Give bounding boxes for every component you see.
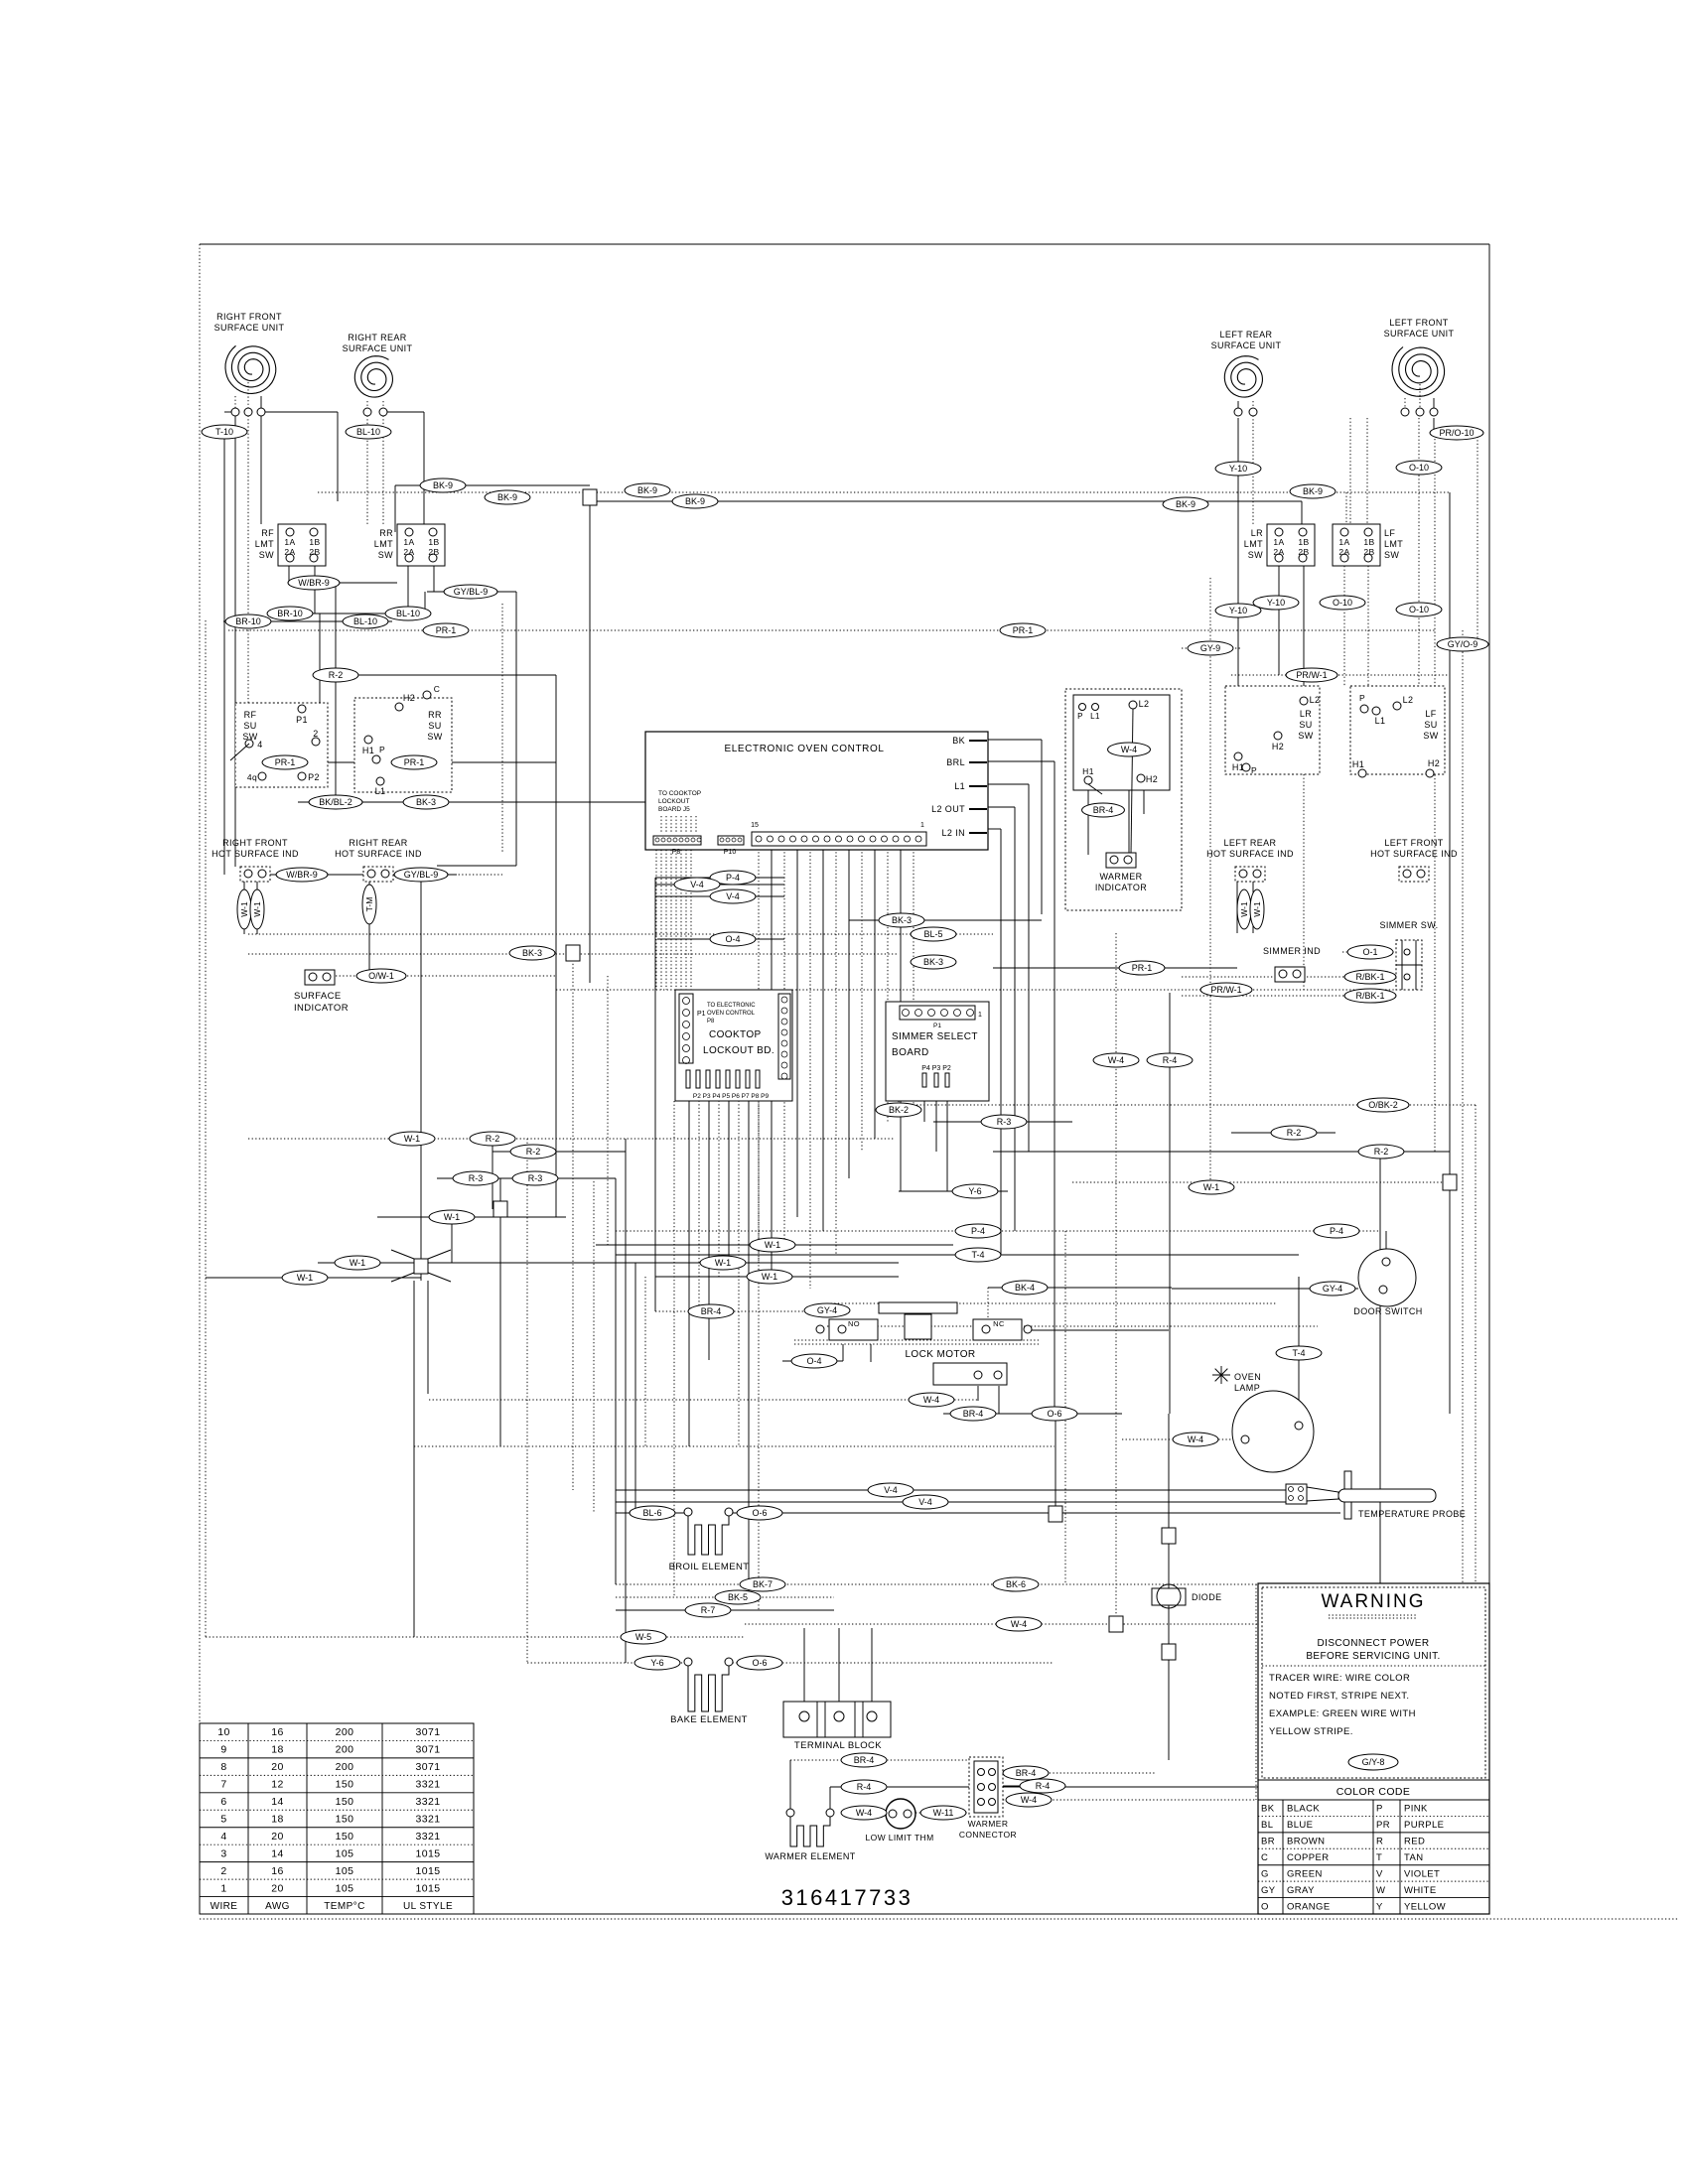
svg-text:W-4: W-4 bbox=[923, 1395, 939, 1405]
svg-text:18: 18 bbox=[271, 1744, 283, 1756]
svg-text:2A: 2A bbox=[1338, 547, 1349, 557]
svg-text:SW: SW bbox=[1248, 550, 1263, 560]
svg-text:Y-10: Y-10 bbox=[1229, 464, 1247, 474]
svg-text:18: 18 bbox=[271, 1814, 283, 1826]
svg-text:H2: H2 bbox=[1428, 758, 1440, 768]
svg-text:WIRE: WIRE bbox=[211, 1901, 238, 1912]
svg-text:BK/BL-2: BK/BL-2 bbox=[319, 797, 352, 807]
svg-text:R-7: R-7 bbox=[701, 1605, 716, 1615]
svg-text:WARMER: WARMER bbox=[968, 1819, 1009, 1829]
svg-text:8: 8 bbox=[220, 1761, 226, 1773]
svg-text:R-4: R-4 bbox=[1036, 1781, 1051, 1791]
svg-text:TO COOKTOP: TO COOKTOP bbox=[658, 790, 701, 797]
svg-text:BL-5: BL-5 bbox=[923, 929, 942, 939]
svg-text:BK-3: BK-3 bbox=[892, 915, 912, 925]
svg-text:ORANGE: ORANGE bbox=[1287, 1901, 1331, 1912]
svg-text:TO ELECTRONIC: TO ELECTRONIC bbox=[707, 1003, 756, 1009]
svg-text:BR-4: BR-4 bbox=[701, 1306, 722, 1316]
svg-text:COLOR CODE: COLOR CODE bbox=[1336, 1786, 1411, 1798]
svg-text:COOKTOP: COOKTOP bbox=[709, 1029, 762, 1040]
svg-text:BK-4: BK-4 bbox=[1015, 1283, 1035, 1293]
svg-text:PR-1: PR-1 bbox=[436, 625, 457, 635]
svg-text:9: 9 bbox=[220, 1744, 226, 1756]
svg-text:RIGHT FRONT: RIGHT FRONT bbox=[222, 838, 288, 848]
svg-text:V-4: V-4 bbox=[918, 1497, 932, 1507]
svg-text:2B: 2B bbox=[1363, 547, 1374, 557]
svg-text:LEFT FRONT: LEFT FRONT bbox=[1384, 838, 1443, 848]
svg-text:R-2: R-2 bbox=[1374, 1147, 1389, 1157]
svg-text:1: 1 bbox=[978, 1012, 982, 1019]
svg-text:L2 IN: L2 IN bbox=[941, 828, 965, 838]
svg-text:P: P bbox=[379, 745, 385, 754]
svg-text:200: 200 bbox=[336, 1726, 354, 1738]
svg-text:L1: L1 bbox=[954, 781, 965, 791]
svg-text:HOT SURFACE IND: HOT SURFACE IND bbox=[1370, 849, 1458, 859]
svg-text:P-4: P-4 bbox=[1330, 1226, 1343, 1236]
svg-text:H2: H2 bbox=[1272, 742, 1284, 751]
svg-text:GY/BL-9: GY/BL-9 bbox=[404, 870, 439, 880]
svg-text:2A: 2A bbox=[1273, 547, 1284, 557]
svg-text:SIMMER SW.: SIMMER SW. bbox=[1379, 920, 1438, 930]
svg-text:O-10: O-10 bbox=[1409, 605, 1429, 614]
svg-text:H2: H2 bbox=[403, 693, 415, 703]
svg-text:1B: 1B bbox=[428, 537, 439, 547]
svg-text:GREEN: GREEN bbox=[1287, 1868, 1323, 1879]
svg-text:L2: L2 bbox=[1403, 695, 1414, 705]
svg-text:10: 10 bbox=[217, 1726, 229, 1738]
svg-text:7: 7 bbox=[220, 1779, 226, 1791]
svg-text:BK-7: BK-7 bbox=[753, 1579, 773, 1589]
svg-text:H1: H1 bbox=[1082, 766, 1094, 776]
svg-text:DIODE: DIODE bbox=[1192, 1592, 1222, 1602]
svg-text:105: 105 bbox=[336, 1865, 354, 1877]
svg-text:BRL: BRL bbox=[946, 757, 965, 767]
svg-text:LMT: LMT bbox=[1244, 539, 1263, 549]
svg-text:GY-4: GY-4 bbox=[1323, 1284, 1342, 1294]
svg-text:TRACER WIRE: WIRE COLOR: TRACER WIRE: WIRE COLOR bbox=[1269, 1673, 1410, 1684]
svg-text:RR: RR bbox=[428, 710, 442, 720]
svg-text:BR: BR bbox=[1261, 1837, 1275, 1847]
svg-text:20: 20 bbox=[271, 1761, 283, 1773]
svg-text:1: 1 bbox=[920, 822, 924, 829]
svg-text:3321: 3321 bbox=[416, 1779, 441, 1791]
svg-text:200: 200 bbox=[336, 1761, 354, 1773]
svg-text:R/BK-1: R/BK-1 bbox=[1355, 991, 1384, 1001]
svg-text:PINK: PINK bbox=[1404, 1804, 1428, 1815]
svg-text:BK-6: BK-6 bbox=[1006, 1579, 1026, 1589]
svg-text:W: W bbox=[1376, 1885, 1385, 1896]
svg-text:Y-6: Y-6 bbox=[968, 1186, 981, 1196]
svg-text:L2: L2 bbox=[1310, 695, 1321, 705]
svg-text:BR-4: BR-4 bbox=[963, 1409, 984, 1419]
svg-text:O-4: O-4 bbox=[725, 934, 740, 944]
svg-text:C: C bbox=[1261, 1852, 1268, 1863]
svg-text:WARMER: WARMER bbox=[1099, 872, 1142, 882]
svg-text:P-4: P-4 bbox=[726, 873, 740, 883]
svg-text:BK-9: BK-9 bbox=[1176, 499, 1196, 509]
svg-text:W-1: W-1 bbox=[444, 1212, 460, 1222]
svg-text:HOT SURFACE IND: HOT SURFACE IND bbox=[1206, 849, 1294, 859]
svg-text:O: O bbox=[1261, 1901, 1269, 1912]
svg-text:LEFT FRONT: LEFT FRONT bbox=[1389, 318, 1448, 328]
svg-text:H1: H1 bbox=[362, 746, 374, 755]
svg-text:PR-1: PR-1 bbox=[275, 757, 296, 767]
svg-text:PR: PR bbox=[1376, 1820, 1390, 1831]
svg-text:4: 4 bbox=[220, 1831, 226, 1843]
svg-text:BK: BK bbox=[952, 736, 965, 746]
svg-text:T: T bbox=[1376, 1852, 1382, 1863]
svg-text:2: 2 bbox=[313, 729, 318, 739]
svg-text:200: 200 bbox=[336, 1744, 354, 1756]
svg-text:BOARD: BOARD bbox=[892, 1047, 929, 1058]
svg-text:2B: 2B bbox=[309, 547, 320, 557]
svg-text:T-M: T-M bbox=[364, 897, 374, 912]
svg-text:SURFACE UNIT: SURFACE UNIT bbox=[1384, 329, 1455, 339]
svg-text:TAN: TAN bbox=[1404, 1852, 1424, 1863]
svg-text:W-4: W-4 bbox=[1108, 1055, 1124, 1065]
svg-text:RIGHT FRONT: RIGHT FRONT bbox=[216, 312, 282, 322]
svg-text:BK-9: BK-9 bbox=[433, 480, 453, 490]
svg-text:BL-10: BL-10 bbox=[356, 427, 380, 437]
svg-text:3071: 3071 bbox=[416, 1744, 441, 1756]
svg-text:BR-10: BR-10 bbox=[235, 616, 261, 626]
svg-text:L1: L1 bbox=[1090, 712, 1100, 721]
svg-text:GY/O-9: GY/O-9 bbox=[1448, 639, 1478, 649]
svg-text:BK-9: BK-9 bbox=[685, 496, 705, 506]
svg-text:PURPLE: PURPLE bbox=[1404, 1820, 1444, 1831]
svg-text:O-6: O-6 bbox=[752, 1658, 767, 1668]
svg-text:O-10: O-10 bbox=[1333, 598, 1352, 608]
svg-text:RR: RR bbox=[379, 528, 393, 538]
svg-text:W/BR-9: W/BR-9 bbox=[286, 870, 318, 880]
svg-text:1B: 1B bbox=[1363, 537, 1374, 547]
svg-text:LMT: LMT bbox=[1384, 539, 1403, 549]
svg-text:L2 OUT: L2 OUT bbox=[931, 804, 965, 814]
svg-text:SURFACE UNIT: SURFACE UNIT bbox=[214, 323, 285, 333]
svg-text:W-1: W-1 bbox=[350, 1258, 365, 1268]
svg-text:LEFT REAR: LEFT REAR bbox=[1220, 330, 1273, 340]
svg-text:RF: RF bbox=[244, 710, 257, 720]
svg-text:BL-10: BL-10 bbox=[396, 609, 420, 618]
svg-text:V-4: V-4 bbox=[690, 880, 704, 889]
svg-text:R: R bbox=[1376, 1837, 1383, 1847]
svg-text:PR/O-10: PR/O-10 bbox=[1439, 428, 1474, 438]
svg-text:BEFORE SERVICING UNIT.: BEFORE SERVICING UNIT. bbox=[1306, 1651, 1440, 1662]
svg-text:12: 12 bbox=[271, 1779, 283, 1791]
svg-text:C: C bbox=[434, 684, 441, 694]
svg-text:Y: Y bbox=[1376, 1901, 1383, 1912]
svg-text:YELLOW STRIPE.: YELLOW STRIPE. bbox=[1269, 1726, 1353, 1737]
svg-text:OVEN: OVEN bbox=[1234, 1372, 1261, 1382]
svg-text:DISCONNECT POWER: DISCONNECT POWER bbox=[1318, 1638, 1430, 1649]
svg-text:PR-1: PR-1 bbox=[1132, 963, 1153, 973]
svg-text:LMT: LMT bbox=[374, 539, 393, 549]
svg-text:RED: RED bbox=[1404, 1837, 1425, 1847]
svg-text:1015: 1015 bbox=[416, 1847, 441, 1859]
svg-text:T-10: T-10 bbox=[215, 427, 233, 437]
svg-text:3: 3 bbox=[220, 1847, 226, 1859]
svg-text:GY-4: GY-4 bbox=[817, 1305, 837, 1315]
svg-text:BK-3: BK-3 bbox=[416, 797, 436, 807]
svg-text:PR-1: PR-1 bbox=[404, 757, 425, 767]
svg-text:LEFT REAR: LEFT REAR bbox=[1224, 838, 1277, 848]
svg-text:150: 150 bbox=[336, 1814, 354, 1826]
svg-text:DOOR SWITCH: DOOR SWITCH bbox=[1353, 1306, 1422, 1316]
svg-text:W/BR-9: W/BR-9 bbox=[298, 578, 330, 588]
svg-text:W-4: W-4 bbox=[1011, 1619, 1027, 1629]
svg-text:1A: 1A bbox=[284, 537, 295, 547]
svg-text:P: P bbox=[1376, 1804, 1383, 1815]
svg-text:H1: H1 bbox=[1352, 759, 1364, 769]
svg-text:SU: SU bbox=[1424, 720, 1437, 730]
svg-text:150: 150 bbox=[336, 1779, 354, 1791]
svg-text:LOCKOUT BD.: LOCKOUT BD. bbox=[703, 1045, 774, 1056]
svg-text:L2: L2 bbox=[1139, 699, 1150, 709]
svg-text:V-4: V-4 bbox=[884, 1485, 898, 1495]
svg-text:R-2: R-2 bbox=[329, 670, 344, 680]
svg-text:O-10: O-10 bbox=[1409, 463, 1429, 473]
svg-text:G: G bbox=[1261, 1868, 1269, 1879]
svg-text:INDICATOR: INDICATOR bbox=[294, 1003, 349, 1014]
svg-text:2A: 2A bbox=[284, 547, 295, 557]
svg-text:5: 5 bbox=[220, 1814, 226, 1826]
svg-text:SW: SW bbox=[1423, 731, 1438, 741]
svg-text:3071: 3071 bbox=[416, 1761, 441, 1773]
svg-text:R/BK-1: R/BK-1 bbox=[1355, 972, 1384, 982]
svg-text:SW: SW bbox=[378, 550, 393, 560]
svg-text:WARMER ELEMENT: WARMER ELEMENT bbox=[765, 1851, 855, 1861]
svg-text:20: 20 bbox=[271, 1882, 283, 1894]
svg-text:14: 14 bbox=[271, 1847, 283, 1859]
svg-text:SURFACE UNIT: SURFACE UNIT bbox=[343, 343, 413, 353]
svg-text:LOCKOUT: LOCKOUT bbox=[658, 798, 689, 805]
svg-text:4q: 4q bbox=[247, 772, 257, 782]
svg-text:P1: P1 bbox=[697, 1011, 706, 1018]
svg-text:PR-1: PR-1 bbox=[1013, 625, 1034, 635]
svg-text:SIMMER SELECT: SIMMER SELECT bbox=[892, 1031, 978, 1042]
svg-text:SU: SU bbox=[243, 721, 256, 731]
svg-text:SW: SW bbox=[1384, 550, 1399, 560]
svg-text:EXAMPLE: GREEN WIRE WITH: EXAMPLE: GREEN WIRE WITH bbox=[1269, 1708, 1416, 1719]
svg-text:P8: P8 bbox=[707, 1019, 715, 1024]
svg-text:T-4: T-4 bbox=[971, 1250, 984, 1260]
svg-text:R-4: R-4 bbox=[1163, 1055, 1178, 1065]
svg-text:316417733: 316417733 bbox=[781, 1885, 914, 1910]
svg-text:SURFACE UNIT: SURFACE UNIT bbox=[1211, 341, 1282, 350]
svg-text:R-3: R-3 bbox=[469, 1173, 484, 1183]
svg-text:NO: NO bbox=[848, 1319, 860, 1328]
svg-text:BK-5: BK-5 bbox=[728, 1592, 748, 1602]
svg-text:W-1: W-1 bbox=[404, 1134, 420, 1144]
svg-text:V-4: V-4 bbox=[726, 891, 740, 901]
svg-text:1015: 1015 bbox=[416, 1865, 441, 1877]
svg-text:W-4: W-4 bbox=[1121, 745, 1137, 754]
svg-text:P: P bbox=[1077, 712, 1083, 721]
svg-text:P-4: P-4 bbox=[971, 1226, 985, 1236]
svg-text:TEMP°C: TEMP°C bbox=[324, 1901, 364, 1912]
svg-text:1A: 1A bbox=[1338, 537, 1349, 547]
svg-text:15: 15 bbox=[751, 822, 759, 829]
svg-text:LMT: LMT bbox=[255, 539, 274, 549]
svg-text:P4 P3 P2: P4 P3 P2 bbox=[921, 1065, 951, 1072]
svg-text:2B: 2B bbox=[428, 547, 439, 557]
svg-text:R-3: R-3 bbox=[528, 1173, 543, 1183]
svg-text:WHITE: WHITE bbox=[1404, 1885, 1437, 1896]
svg-text:W-1: W-1 bbox=[252, 901, 262, 917]
svg-text:LR: LR bbox=[1300, 709, 1312, 719]
svg-text:L1: L1 bbox=[375, 786, 386, 796]
svg-text:1A: 1A bbox=[403, 537, 414, 547]
svg-text:W-11: W-11 bbox=[933, 1808, 954, 1818]
svg-text:P: P bbox=[1359, 693, 1365, 703]
svg-text:GY-9: GY-9 bbox=[1200, 643, 1220, 653]
svg-text:WARNING: WARNING bbox=[1321, 1591, 1425, 1612]
svg-text:RIGHT REAR: RIGHT REAR bbox=[348, 333, 406, 342]
svg-text:W-1: W-1 bbox=[715, 1258, 731, 1268]
svg-text:ELECTRONIC OVEN CONTROL: ELECTRONIC OVEN CONTROL bbox=[724, 744, 884, 754]
svg-text:W-4: W-4 bbox=[856, 1808, 872, 1818]
svg-text:O-6: O-6 bbox=[1047, 1409, 1061, 1419]
svg-text:1015: 1015 bbox=[416, 1882, 441, 1894]
svg-text:UL STYLE: UL STYLE bbox=[403, 1901, 453, 1912]
svg-text:VIOLET: VIOLET bbox=[1404, 1868, 1440, 1879]
svg-text:3071: 3071 bbox=[416, 1726, 441, 1738]
svg-text:BR-4: BR-4 bbox=[854, 1755, 875, 1765]
svg-text:T-4: T-4 bbox=[1292, 1348, 1305, 1358]
svg-text:O-1: O-1 bbox=[1362, 947, 1377, 957]
svg-text:HOT SURFACE IND: HOT SURFACE IND bbox=[211, 849, 299, 859]
svg-text:BLACK: BLACK bbox=[1287, 1804, 1320, 1815]
svg-text:LF: LF bbox=[1425, 709, 1436, 719]
svg-text:RIGHT REAR: RIGHT REAR bbox=[349, 838, 407, 848]
svg-text:TEMPERATURE PROBE: TEMPERATURE PROBE bbox=[1358, 1509, 1466, 1519]
svg-text:105: 105 bbox=[336, 1847, 354, 1859]
svg-text:PR/W-1: PR/W-1 bbox=[1296, 670, 1327, 680]
svg-text:W-4: W-4 bbox=[1188, 1434, 1203, 1444]
svg-text:W-1: W-1 bbox=[1203, 1182, 1219, 1192]
svg-text:1B: 1B bbox=[309, 537, 320, 547]
svg-text:P1: P1 bbox=[296, 715, 308, 725]
svg-text:BK-3: BK-3 bbox=[522, 948, 542, 958]
svg-text:LF: LF bbox=[1384, 528, 1395, 538]
svg-text:LOCK MOTOR: LOCK MOTOR bbox=[905, 1349, 975, 1360]
svg-text:BL-6: BL-6 bbox=[642, 1508, 661, 1518]
svg-text:SU: SU bbox=[428, 721, 441, 731]
svg-text:6: 6 bbox=[220, 1796, 226, 1808]
svg-text:INDICATOR: INDICATOR bbox=[1095, 883, 1147, 892]
svg-text:BLUE: BLUE bbox=[1287, 1820, 1313, 1831]
svg-text:LR: LR bbox=[1251, 528, 1263, 538]
svg-text:SU: SU bbox=[1299, 720, 1312, 730]
svg-text:RF: RF bbox=[261, 528, 274, 538]
svg-text:BK-2: BK-2 bbox=[889, 1105, 909, 1115]
svg-text:BK: BK bbox=[1261, 1804, 1275, 1815]
svg-text:BR-4: BR-4 bbox=[1016, 1768, 1037, 1778]
svg-text:P2 P3 P4 P5 P6 P7 P8 P9: P2 P3 P4 P5 P6 P7 P8 P9 bbox=[693, 1093, 770, 1100]
svg-text:2: 2 bbox=[220, 1865, 226, 1877]
svg-text:BK-3: BK-3 bbox=[923, 957, 943, 967]
svg-text:SW: SW bbox=[427, 732, 442, 742]
svg-text:3321: 3321 bbox=[416, 1831, 441, 1843]
svg-text:AWG: AWG bbox=[265, 1901, 290, 1912]
svg-text:1B: 1B bbox=[1298, 537, 1309, 547]
svg-text:R-2: R-2 bbox=[526, 1147, 541, 1157]
svg-text:SIMMER IND: SIMMER IND bbox=[1263, 946, 1321, 956]
svg-text:3321: 3321 bbox=[416, 1796, 441, 1808]
svg-text:W-4: W-4 bbox=[1021, 1795, 1037, 1805]
svg-text:P2: P2 bbox=[308, 772, 320, 782]
svg-text:W-5: W-5 bbox=[635, 1632, 651, 1642]
svg-text:GY/BL-9: GY/BL-9 bbox=[454, 587, 489, 597]
svg-text:3321: 3321 bbox=[416, 1814, 441, 1826]
svg-text:150: 150 bbox=[336, 1796, 354, 1808]
svg-text:1: 1 bbox=[220, 1882, 226, 1894]
svg-text:SURFACE: SURFACE bbox=[294, 991, 342, 1002]
svg-text:COPPER: COPPER bbox=[1287, 1852, 1330, 1863]
svg-text:BK-9: BK-9 bbox=[497, 492, 517, 502]
svg-text:Y-10: Y-10 bbox=[1267, 598, 1285, 608]
svg-text:V: V bbox=[1376, 1868, 1383, 1879]
svg-text:BOARD J5: BOARD J5 bbox=[658, 806, 690, 813]
svg-text:O/BK-2: O/BK-2 bbox=[1368, 1100, 1398, 1110]
svg-text:BL-10: BL-10 bbox=[353, 616, 377, 626]
svg-text:PR/W-1: PR/W-1 bbox=[1210, 985, 1241, 995]
svg-text:O-6: O-6 bbox=[752, 1508, 767, 1518]
svg-text:LAMP: LAMP bbox=[1234, 1383, 1260, 1393]
svg-text:R-4: R-4 bbox=[857, 1782, 872, 1792]
svg-text:105: 105 bbox=[336, 1882, 354, 1894]
svg-text:2B: 2B bbox=[1298, 547, 1309, 557]
svg-text:CONNECTOR: CONNECTOR bbox=[959, 1830, 1017, 1840]
svg-text:H2: H2 bbox=[1146, 774, 1158, 784]
svg-text:P1: P1 bbox=[933, 1023, 941, 1029]
svg-text:BR-10: BR-10 bbox=[277, 609, 303, 618]
svg-text:W-1: W-1 bbox=[762, 1272, 777, 1282]
svg-text:BR-4: BR-4 bbox=[1093, 805, 1114, 815]
svg-text:Y-6: Y-6 bbox=[650, 1658, 663, 1668]
svg-text:BROWN: BROWN bbox=[1287, 1837, 1325, 1847]
svg-text:G/Y-8: G/Y-8 bbox=[1362, 1757, 1385, 1767]
svg-text:NC: NC bbox=[993, 1319, 1005, 1328]
svg-text:LOW LIMIT THM: LOW LIMIT THM bbox=[865, 1833, 933, 1843]
svg-text:R-2: R-2 bbox=[486, 1134, 500, 1144]
svg-text:Y-10: Y-10 bbox=[1229, 606, 1247, 615]
svg-text:W-1: W-1 bbox=[239, 901, 249, 917]
svg-text:16: 16 bbox=[271, 1865, 283, 1877]
svg-text:R-2: R-2 bbox=[1287, 1128, 1302, 1138]
svg-text:SW: SW bbox=[1298, 731, 1313, 741]
svg-text:P10: P10 bbox=[724, 849, 737, 856]
svg-text:P: P bbox=[1251, 765, 1257, 775]
svg-text:BAKE ELEMENT: BAKE ELEMENT bbox=[670, 1714, 748, 1725]
svg-text:TERMINAL BLOCK: TERMINAL BLOCK bbox=[794, 1740, 882, 1751]
svg-text:4: 4 bbox=[257, 740, 262, 750]
svg-text:NOTED FIRST, STRIPE NEXT.: NOTED FIRST, STRIPE NEXT. bbox=[1269, 1691, 1409, 1702]
svg-text:150: 150 bbox=[336, 1831, 354, 1843]
svg-text:W-1: W-1 bbox=[765, 1240, 780, 1250]
svg-text:BROIL ELEMENT: BROIL ELEMENT bbox=[669, 1562, 750, 1572]
svg-text:O/W-1: O/W-1 bbox=[368, 971, 394, 981]
svg-text:W-1: W-1 bbox=[297, 1273, 313, 1283]
svg-text:P8: P8 bbox=[672, 849, 681, 856]
svg-text:2A: 2A bbox=[403, 547, 414, 557]
svg-text:W-1: W-1 bbox=[1252, 901, 1262, 917]
svg-text:GRAY: GRAY bbox=[1287, 1885, 1315, 1896]
svg-text:L1: L1 bbox=[1375, 716, 1386, 726]
svg-text:W-1: W-1 bbox=[1239, 901, 1249, 917]
svg-text:14: 14 bbox=[271, 1796, 283, 1808]
svg-text:BK-9: BK-9 bbox=[637, 485, 657, 495]
